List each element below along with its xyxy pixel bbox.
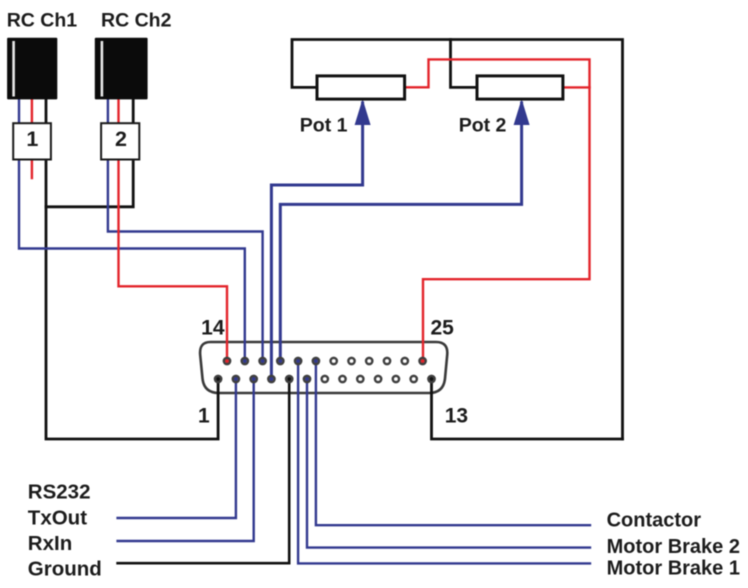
svg-text:Pot 2: Pot 2 <box>459 115 507 137</box>
svg-text:RC Ch1: RC Ch1 <box>7 9 78 31</box>
svg-text:25: 25 <box>431 317 455 340</box>
svg-text:2: 2 <box>115 127 127 151</box>
svg-text:1: 1 <box>26 127 38 151</box>
svg-text:Contactor: Contactor <box>607 510 702 532</box>
svg-text:14: 14 <box>201 317 225 340</box>
svg-text:Ground: Ground <box>28 558 102 581</box>
svg-text:RS232: RS232 <box>28 481 91 504</box>
svg-text:Motor Brake 1: Motor Brake 1 <box>607 558 740 580</box>
svg-text:RC Ch2: RC Ch2 <box>101 9 172 31</box>
svg-text:1: 1 <box>198 404 210 427</box>
svg-text:RxIn: RxIn <box>28 532 72 555</box>
svg-text:Motor Brake 2: Motor Brake 2 <box>607 536 740 558</box>
svg-text:13: 13 <box>445 404 468 427</box>
svg-text:TxOut: TxOut <box>28 507 87 530</box>
svg-text:Pot 1: Pot 1 <box>300 115 348 137</box>
